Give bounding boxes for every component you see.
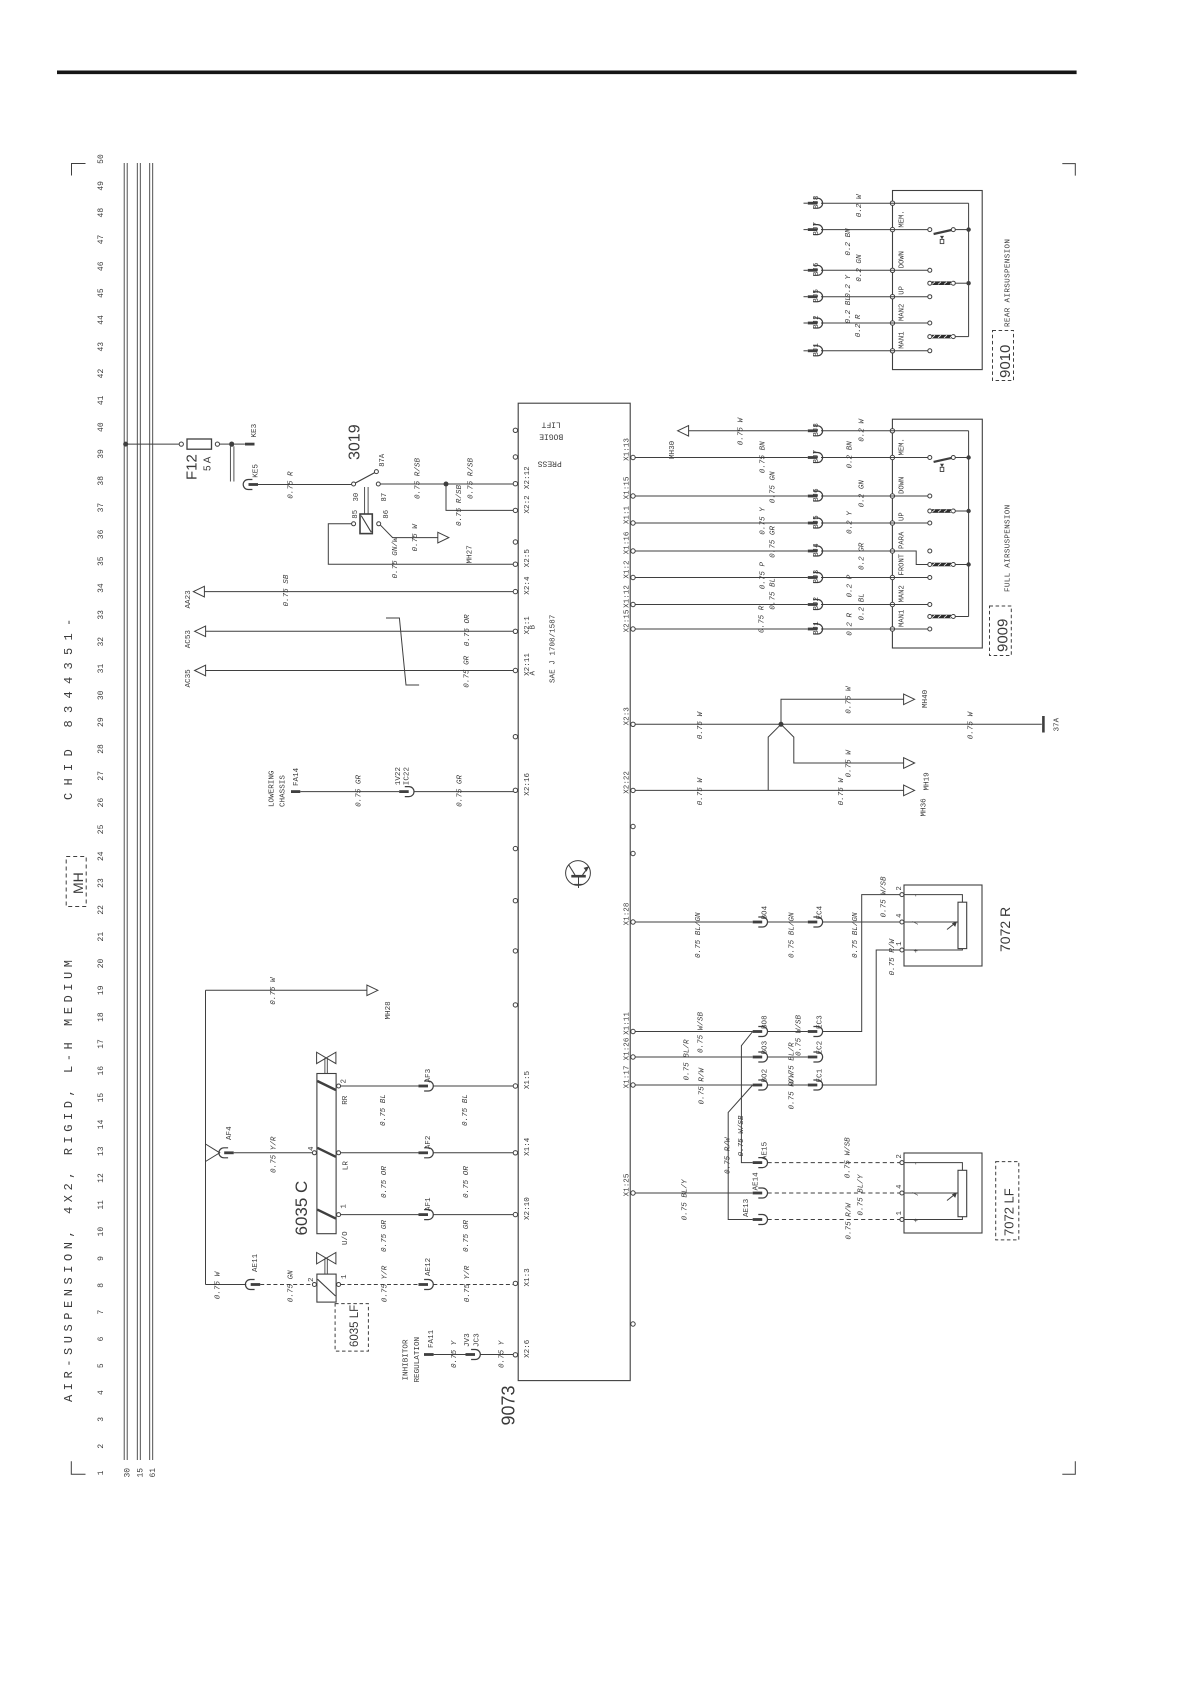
svg-text:X1:26: X1:26 (624, 1037, 632, 1060)
svg-text:X1:2: X1:2 (624, 560, 632, 579)
svg-text:22: 22 (97, 905, 106, 915)
svg-text:X1:25: X1:25 (624, 1173, 632, 1196)
svg-text:X1:3: X1:3 (524, 1268, 532, 1287)
svg-text:JC3: JC3 (474, 1333, 482, 1347)
6035 LF pin 2 (312, 1283, 316, 1287)
svg-text:X2:6: X2:6 (524, 1339, 532, 1358)
relay 3019 switch contact 30/87/87A (352, 482, 356, 486)
switch common bar (968, 203, 970, 336)
9073 unused pin (right edge) (631, 851, 635, 855)
svg-text:36: 36 (97, 529, 106, 539)
junction node on 0.75 R/SB wire (444, 482, 449, 487)
transistor symbol inside 9073 (566, 861, 591, 886)
svg-text:27: 27 (97, 771, 106, 781)
svg-text:1V22: 1V22 (395, 767, 403, 786)
svg-text:DOWN: DOWN (899, 477, 907, 494)
svg-text:FULL AIRSUSPENSION: FULL AIRSUSPENSION (1005, 505, 1013, 592)
svg-text:UP: UP (899, 286, 907, 295)
svg-text:39: 39 (97, 449, 106, 459)
svg-text:37A: 37A (1053, 717, 1061, 731)
svg-text:CHID 8344351-: CHID 8344351- (62, 611, 76, 800)
9073 pin X2:4 (513, 589, 517, 593)
switch 9009 body (892, 419, 982, 648)
svg-text:17: 17 (97, 1039, 106, 1049)
svg-text:0.75 BL/GN: 0.75 BL/GN (695, 912, 703, 958)
svg-text:BJ3: BJ3 (813, 569, 821, 583)
wire 0.75 W junction to MH40 (781, 699, 904, 724)
svg-text:MH30: MH30 (669, 440, 677, 459)
connector AF1 (419, 1213, 429, 1216)
svg-text:0.75 OR: 0.75 OR (464, 614, 472, 646)
svg-text:BJ1: BJ1 (813, 343, 821, 357)
9073 pin X2:10 (513, 1212, 517, 1216)
wire 0.75 Y/R AE12 to X1:3 (dashed) (433, 1284, 513, 1286)
connector AE15 (753, 1161, 763, 1164)
svg-text:0.2 BN: 0.2 BN (847, 441, 855, 469)
svg-text:FRONT: FRONT (899, 553, 907, 575)
svg-text:30: 30 (124, 1468, 133, 1478)
svg-text:0.75 R/W: 0.75 R/W (698, 1067, 706, 1105)
svg-text:32: 32 (97, 637, 106, 647)
svg-text:10: 10 (97, 1227, 106, 1237)
svg-text:7072 LF: 7072 LF (1002, 1188, 1017, 1236)
svg-text:PARA: PARA (899, 531, 907, 549)
7072R pin 2 (900, 893, 904, 897)
wire 0.75 W/SB X1:11 to BO8 (635, 1031, 753, 1033)
branch wire 0.75 W/SB X1:11 node to AE15 (741, 1032, 752, 1163)
9073 pin X1:16 (631, 549, 635, 553)
svg-text:0.75 GN/W: 0.75 GN/W (392, 536, 400, 578)
wire 0.75 BL 6035C pin2 to AF3 (341, 1085, 419, 1087)
svg-text:AC53: AC53 (185, 630, 193, 649)
svg-text:0.75 W: 0.75 W (697, 711, 705, 740)
6035 C pin 4 (LR, left side) (312, 1151, 316, 1155)
svg-text:31: 31 (97, 664, 106, 674)
svg-text:47: 47 (97, 234, 106, 244)
svg-text:X2:12: X2:12 (524, 466, 532, 489)
svg-text:15: 15 (97, 1093, 106, 1103)
svg-text:14: 14 (97, 1119, 106, 1129)
svg-text:0.75 BL/GN: 0.75 BL/GN (852, 912, 860, 958)
svg-text:44: 44 (97, 315, 106, 325)
connector EC2 (808, 1056, 818, 1059)
svg-text:43: 43 (97, 342, 106, 352)
svg-text:12: 12 (97, 1173, 106, 1183)
svg-text:0.75 BN: 0.75 BN (759, 441, 767, 473)
svg-text:MH40: MH40 (922, 689, 930, 708)
svg-text:MAN1: MAN1 (899, 610, 907, 627)
6035 C pin 1 (U/O) (337, 1213, 341, 1217)
relay actuator link (double line) (364, 487, 366, 514)
svg-text:F12: F12 (184, 454, 201, 480)
svg-text:REGULATION: REGULATION (414, 1337, 422, 1383)
9073 pin X2:11 (513, 668, 517, 672)
svg-text:X2:10: X2:10 (524, 1197, 532, 1220)
valve symbol on 6035 C (317, 1052, 336, 1063)
wire 0.75 GR IC22 to X2:16 (414, 791, 513, 793)
svg-text:16: 16 (97, 1066, 106, 1076)
svg-text:FA14: FA14 (293, 767, 301, 786)
9073 pin X1:15 (631, 494, 635, 498)
9073 pin X1:11 (631, 1029, 635, 1033)
MH harness reference (dashed box) (66, 857, 86, 907)
svg-text:AE15: AE15 (762, 1141, 770, 1160)
wire 0.75 SB AA23 to X2:4 (204, 591, 513, 593)
svg-text:0.75 R/W: 0.75 R/W (789, 1072, 797, 1110)
9073 unused pin (left edge) (513, 899, 517, 903)
9073 pin X2:15 (631, 627, 635, 631)
svg-text:MH: MH (70, 872, 86, 894)
7072LF pin 4 (900, 1191, 904, 1195)
7072R pin 4 (900, 920, 904, 924)
svg-text:5: 5 (97, 1363, 106, 1368)
svg-text:4: 4 (896, 1185, 904, 1189)
9073 unused pin (left edge) (513, 428, 517, 432)
svg-text:0.75 R/W: 0.75 R/W (845, 1202, 853, 1240)
svg-text:MH36: MH36 (920, 798, 928, 817)
connector AE14 (753, 1192, 763, 1195)
9073 unused pin (left edge) (513, 455, 517, 459)
svg-text:11: 11 (97, 1200, 106, 1210)
wire 0.75 W trunk (vertical) (205, 990, 207, 1284)
svg-text:X1:15: X1:15 (624, 476, 632, 499)
svg-text:0.75 OR: 0.75 OR (381, 1166, 389, 1198)
wire 0.75 BL/Y X1:25 to AE14 (635, 1192, 753, 1194)
svg-text:0.75 BL/Y: 0.75 BL/Y (857, 1174, 865, 1215)
svg-text:2: 2 (896, 886, 904, 890)
connector KE3 (pin stub) (229, 442, 234, 447)
wire 0.75 R/SB junction to X2:2 (446, 484, 513, 510)
switch 9009 MEM contact wire (892, 457, 927, 459)
svg-text:0.75 GR: 0.75 GR (464, 655, 472, 687)
svg-text:MH28: MH28 (385, 1001, 393, 1020)
wire 0.75 W trunk to connector AE11 (206, 1284, 247, 1286)
frame corner mark bottom-right (1062, 1461, 1075, 1474)
svg-text:0.2 R: 0.2 R (847, 612, 855, 635)
off-sheet arrow AA23 (193, 586, 204, 597)
svg-text:30: 30 (353, 493, 361, 502)
svg-text:0.2 GN: 0.2 GN (856, 254, 864, 282)
svg-text:LOWERING: LOWERING (269, 770, 277, 807)
frame corner mark top-right (1062, 164, 1075, 176)
off-sheet arrow MH36 (904, 785, 915, 796)
connector AE13 (753, 1218, 763, 1221)
6035 C pin 2 (RR) (337, 1084, 341, 1088)
9073 pin X2:5 (513, 562, 517, 566)
svg-text:LR: LR (342, 1161, 350, 1171)
wire 0.75 BL/Y AE14 to 7072LF pin 4 (dashed) (768, 1192, 900, 1194)
wire 0.75 Y/R 6035LF pin1 to AE12 (dashed) (341, 1284, 419, 1286)
svg-text:15: 15 (137, 1468, 146, 1478)
wire 0.75 OR AC53 to X2:1 (206, 630, 514, 632)
svg-text:9073: 9073 (499, 1385, 519, 1425)
svg-text:28: 28 (97, 744, 106, 754)
svg-text:/: / (913, 921, 921, 925)
wire 0.75 W/SB AE15 to 7072LF pin 2 (dashed) (768, 1162, 900, 1164)
svg-text:20: 20 (97, 958, 106, 968)
wire 0.75 GN AE11 to valve 6035LF pin 2 (dashed) (260, 1284, 312, 1286)
svg-text:JV3: JV3 (464, 1333, 472, 1347)
svg-text:BJ8: BJ8 (813, 195, 821, 209)
svg-text:0.75 W: 0.75 W (967, 711, 975, 740)
svg-text:0.2 P: 0.2 P (847, 574, 855, 597)
off-sheet arrow MH28 (367, 985, 378, 996)
svg-text:0.75 W: 0.75 W (846, 749, 854, 778)
wire 0.75 W/SB BO8 to EC3 (768, 1031, 808, 1033)
svg-text:X2:3: X2:3 (624, 707, 632, 726)
svg-text:25: 25 (97, 824, 106, 834)
connector JV3/JC3 (466, 1353, 476, 1356)
svg-text:0.75 W/SB: 0.75 W/SB (796, 1015, 804, 1056)
svg-text:MH27: MH27 (467, 545, 475, 563)
svg-text:IC22: IC22 (404, 767, 412, 786)
wire 0.75 OR AF2 to X1:4 (433, 1152, 513, 1154)
wire 0.75 R KE5 to relay 3019 pin 30 (258, 484, 351, 486)
svg-text:40: 40 (97, 422, 106, 432)
svg-text:KE5: KE5 (252, 464, 260, 478)
9073 pin X1:5 (513, 1084, 517, 1088)
svg-text:INHIBITOR: INHIBITOR (403, 1339, 411, 1380)
svg-text:LIFT: LIFT (541, 420, 560, 429)
svg-text:0.75 R: 0.75 R (287, 471, 295, 499)
9073 pin X2:3 (631, 722, 635, 726)
wire 0.75 R/W AE13 to 7072LF pin 1 (dashed) (768, 1219, 900, 1221)
valve 6035 LF designation (dashed tag) (335, 1304, 368, 1352)
svg-text:X1:28: X1:28 (624, 902, 632, 925)
svg-text:0.75 Y/R: 0.75 Y/R (464, 1265, 472, 1302)
relay 3019 coil (360, 514, 372, 534)
wire 0.75 R/W EC1 to 7072R pin 1 (822, 950, 900, 1085)
wire 0.75 GR AC35 to X2:11 (206, 670, 514, 672)
svg-text:0.75 GR: 0.75 GR (770, 526, 778, 558)
svg-text:2: 2 (97, 1444, 106, 1449)
svg-text:0.2 W: 0.2 W (858, 418, 866, 442)
frame corner mark bottom-left (71, 1461, 85, 1474)
power rail 61 (double line) (149, 163, 151, 1460)
9073 pin X2:12 (513, 482, 517, 486)
svg-text:0.75 R/W: 0.75 R/W (725, 1136, 733, 1174)
svg-text:0.75 W: 0.75 W (737, 417, 745, 446)
svg-text:0.75 W/SB: 0.75 W/SB (881, 876, 889, 917)
svg-text:0.75 Y/R: 0.75 Y/R (270, 1136, 278, 1173)
svg-text:1: 1 (341, 1204, 349, 1209)
svg-text:37: 37 (97, 503, 106, 513)
ground 37A (1042, 716, 1045, 733)
9073 pin X1:13 (631, 455, 635, 459)
svg-text:19: 19 (97, 985, 106, 995)
switch 9009 row BJ3 (635, 577, 808, 579)
svg-text:0.75 Y: 0.75 Y (499, 1340, 507, 1368)
svg-text:0.75 W/SB: 0.75 W/SB (844, 1137, 852, 1178)
svg-text:X2:5: X2:5 (524, 549, 532, 568)
wire 0.75 W MH30 to BJ8 (689, 430, 808, 432)
7072LF pin 2 (900, 1161, 904, 1165)
svg-text:6035 C: 6035 C (292, 1181, 311, 1236)
svg-text:BJ8: BJ8 (813, 423, 821, 437)
wire 0.75 W relay 86 to MH28 arrow (MH27) (381, 525, 438, 537)
9073 pin X2:2 (513, 508, 517, 512)
svg-text:0.2 BN: 0.2 BN (845, 228, 853, 256)
svg-text:33: 33 (97, 610, 106, 620)
svg-text:BJ2: BJ2 (813, 596, 821, 610)
wire 0.75 Y/R AF4 to valve 6035C pin 4 (234, 1152, 313, 1154)
svg-text:AF4: AF4 (226, 1126, 234, 1140)
9073 pin X1:26 (631, 1055, 635, 1059)
9073 unused pin (right edge) (631, 1322, 635, 1326)
9073 pin X1:28 (631, 920, 635, 924)
svg-text:0.75 GR: 0.75 GR (381, 1220, 389, 1252)
wire 0.75 GN/W relay 85 to X2:5 (328, 524, 513, 564)
svg-text:AC35: AC35 (185, 669, 193, 688)
svg-text:EC4: EC4 (817, 905, 825, 919)
svg-text:X2:22: X2:22 (624, 771, 632, 794)
connector EC4 (808, 921, 818, 924)
wire rail 30 to fuse F12 (126, 443, 180, 445)
svg-text:49: 49 (97, 181, 106, 191)
switch common bar (968, 431, 970, 617)
connector 1V22/IC22 (399, 790, 409, 793)
svg-text:85: 85 (352, 510, 360, 519)
svg-text:AE14: AE14 (752, 1172, 760, 1191)
svg-text:0.75 Y/R: 0.75 Y/R (382, 1265, 390, 1302)
branch wire 0.75 R/W X1:17 node to AE13 (728, 1085, 753, 1220)
connector BO3 (753, 1056, 763, 1059)
6035 C coil RR (317, 1081, 336, 1090)
svg-text:U/O: U/O (342, 1231, 350, 1245)
svg-text:0.75 R/SB: 0.75 R/SB (468, 458, 476, 499)
svg-text:7072 R: 7072 R (997, 907, 1013, 952)
svg-text:0.75 W: 0.75 W (412, 523, 420, 552)
branch kink to connector AF4 (206, 1144, 220, 1162)
svg-text:0.2 R: 0.2 R (855, 314, 863, 337)
svg-text:0.75 GR: 0.75 GR (355, 775, 363, 807)
svg-text:X2:16: X2:16 (524, 772, 532, 795)
svg-text:0.75 BL: 0.75 BL (380, 1094, 388, 1126)
svg-text:MH19: MH19 (923, 772, 931, 791)
svg-text:2: 2 (896, 1154, 904, 1158)
svg-text:X1:1: X1:1 (624, 505, 632, 524)
connector AE11 (245, 1280, 254, 1290)
svg-text:0.2 Y: 0.2 Y (845, 274, 853, 297)
wire 0.75 GR FA14 to 1V22 (300, 791, 399, 793)
svg-text:AIR-SUSPENSION, 4X2, RIGID, L-: AIR-SUSPENSION, 4X2, RIGID, L-H MEDIUM (62, 955, 76, 1402)
wire 0.75 BL/R BO3 to EC2 (768, 1056, 808, 1058)
svg-text:X1:13: X1:13 (624, 438, 632, 461)
svg-text:DOWN: DOWN (899, 251, 907, 268)
9073 pin X2:1 (513, 629, 517, 633)
svg-text:0.75 SB: 0.75 SB (283, 574, 291, 606)
7072R sense element (958, 902, 967, 948)
wire 0.75 Y FA11 to JV3 (434, 1354, 466, 1356)
svg-text:9: 9 (97, 1256, 106, 1261)
connector AF2 (419, 1151, 429, 1154)
svg-text:0.2 GR: 0.2 GR (858, 542, 866, 570)
switch 9010 pigtail BJ5 wire 0.2 Y (804, 296, 808, 298)
svg-text:0.75 W: 0.75 W (214, 1270, 222, 1299)
svg-text:BJ5: BJ5 (813, 515, 821, 529)
off-sheet arrow MH19 (904, 758, 915, 769)
wire 0.75 R/W X1:17 to BO2 (635, 1084, 753, 1086)
switch 9010 pigtail BJ6 wire 0.2 GN (804, 269, 808, 271)
svg-text:AF2: AF2 (425, 1135, 433, 1149)
svg-text:30: 30 (97, 690, 106, 700)
svg-text:0.75 OR: 0.75 OR (463, 1166, 471, 1198)
connector EC1 (808, 1084, 818, 1087)
sheet top border (thick rule) (57, 71, 1077, 75)
level sensor designation 7072 LF (dashed tag) (996, 1162, 1019, 1240)
wire to off-sheet arrow MH28 (206, 989, 367, 991)
svg-text:-: - (913, 1161, 921, 1165)
wire 0.75 BL AF3 to X1:5 (433, 1085, 513, 1087)
wire 0.75 OR 6035C LR to AF2 (341, 1152, 419, 1154)
svg-text:87A: 87A (379, 453, 387, 467)
svg-text:6035 LF: 6035 LF (349, 1305, 361, 1347)
junction node 0.75 W distribution (779, 722, 784, 727)
connector AF4 (219, 1148, 228, 1158)
svg-text:0.75 W/SB: 0.75 W/SB (698, 1012, 706, 1053)
svg-text:AE11: AE11 (252, 1253, 260, 1272)
svg-text:0.2 Y: 0.2 Y (847, 511, 855, 534)
svg-text:0.75 BL/R: 0.75 BL/R (683, 1039, 691, 1080)
frame corner mark top-left (72, 164, 86, 176)
switch 9009 row BJ7 (635, 457, 808, 459)
power rail 30 (double line) (123, 163, 125, 1460)
switch 9009 row BJ6 (635, 495, 808, 497)
connector KE5 (243, 480, 252, 490)
9073 pin X1:25 (631, 1191, 635, 1195)
svg-text:0.75 R/SB: 0.75 R/SB (414, 458, 422, 499)
switch designation 9010 (dashed tag) (993, 331, 1014, 381)
svg-text:24: 24 (97, 851, 106, 861)
wire 0.75 GR AF1 to X2:10 (433, 1214, 513, 1216)
svg-text:0.75 GN: 0.75 GN (770, 471, 778, 503)
svg-text:0.2 W: 0.2 W (856, 193, 864, 217)
svg-text:46: 46 (97, 261, 106, 271)
svg-text:3: 3 (97, 1417, 106, 1422)
control unit 9073 outline (518, 403, 630, 1380)
9073 unused pin (right edge) (631, 824, 635, 828)
connector EC3 (808, 1030, 818, 1033)
svg-text:BO3: BO3 (762, 1040, 770, 1054)
wire fuse to connector KE3 (220, 443, 230, 445)
svg-text:REAR AIRSUSPENSION: REAR AIRSUSPENSION (1005, 239, 1013, 327)
svg-text:9009: 9009 (995, 619, 1012, 652)
svg-text:4: 4 (97, 1390, 106, 1395)
switch 9010 MEM contact wire (893, 229, 928, 231)
svg-text:7: 7 (97, 1310, 106, 1315)
svg-text:87: 87 (381, 493, 389, 502)
svg-text:FA11: FA11 (428, 1329, 436, 1348)
svg-text:61: 61 (149, 1468, 158, 1478)
svg-text:29: 29 (97, 717, 106, 727)
svg-text:BJ1: BJ1 (813, 621, 821, 635)
power rail 15 (double line) (136, 163, 138, 1460)
wire 0.75 W junction to ground 37A (784, 723, 1042, 725)
svg-text:AF1: AF1 (425, 1197, 433, 1211)
switch 9010 pigtail BJ2 wire 0.2 BL (804, 322, 808, 324)
svg-text:BJ2: BJ2 (813, 315, 821, 329)
svg-text:X1:4: X1:4 (524, 1137, 532, 1156)
svg-text:45: 45 (97, 288, 106, 298)
svg-text:MEM.: MEM. (899, 438, 907, 455)
svg-text:KE3: KE3 (251, 423, 259, 437)
wire 0.75 BL/GN X1:28 to BO4 (635, 921, 753, 923)
svg-text:8: 8 (97, 1283, 106, 1288)
svg-text:X2:11: X2:11 (524, 653, 532, 676)
svg-text:26: 26 (97, 798, 106, 808)
svg-text:42: 42 (97, 369, 106, 379)
valve block 6035 C body (317, 1074, 336, 1234)
